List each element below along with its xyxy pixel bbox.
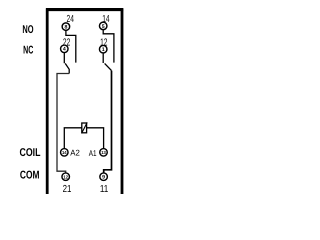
terminal 14 (pin 5)	[99, 22, 107, 30]
svg-text:9: 9	[102, 175, 105, 181]
svg-text:COM: COM	[20, 170, 40, 182]
svg-text:12: 12	[63, 174, 68, 179]
box top border emphasis	[46, 8, 123, 11]
svg-text:1: 1	[102, 47, 105, 53]
svg-text:13: 13	[101, 150, 106, 155]
terminal A1 (pin 13)	[100, 149, 108, 157]
svg-text:21: 21	[63, 184, 72, 195]
svg-text:A2: A2	[70, 148, 80, 158]
terminal 22 (pin 4)	[61, 45, 69, 53]
svg-text:A1: A1	[89, 148, 97, 158]
wire 12 NC stub (pole 1)	[102, 53, 104, 63]
svg-text:4: 4	[63, 47, 66, 53]
pole 1 armature (moving contact)	[105, 63, 112, 70]
wire 22 NC stub (pole 2)	[63, 53, 65, 64]
svg-text:5: 5	[102, 24, 105, 30]
terminal 11 (pin 9)	[100, 173, 108, 181]
svg-text:11: 11	[100, 184, 109, 195]
pole 1 COM rail wire to terminal 11	[104, 71, 112, 173]
wire 24 to NO stub (pole 2)	[66, 30, 76, 62]
terminal 12 (pin 1)	[99, 45, 107, 53]
terminal 24 (pin 8)	[62, 23, 70, 31]
svg-text:14: 14	[62, 150, 67, 155]
relay body outline (open-bottom box)	[47, 10, 122, 194]
svg-text:NC: NC	[23, 45, 33, 57]
svg-text:COIL: COIL	[20, 147, 41, 159]
coil wire A1 side	[87, 128, 104, 149]
pole 2 armature (moving contact)	[65, 63, 69, 73]
terminal 21 (pin 12)	[62, 173, 70, 181]
svg-text:8: 8	[64, 25, 67, 31]
wire 14 to NO stub (pole 1)	[103, 30, 114, 63]
pole 2 COM rail wire to terminal 21	[57, 74, 69, 174]
svg-text:NO: NO	[22, 24, 33, 36]
coil K1 (rect with slash)	[82, 122, 88, 133]
terminal A2 (pin 14)	[61, 149, 69, 157]
coil wire A2 side	[64, 128, 81, 149]
